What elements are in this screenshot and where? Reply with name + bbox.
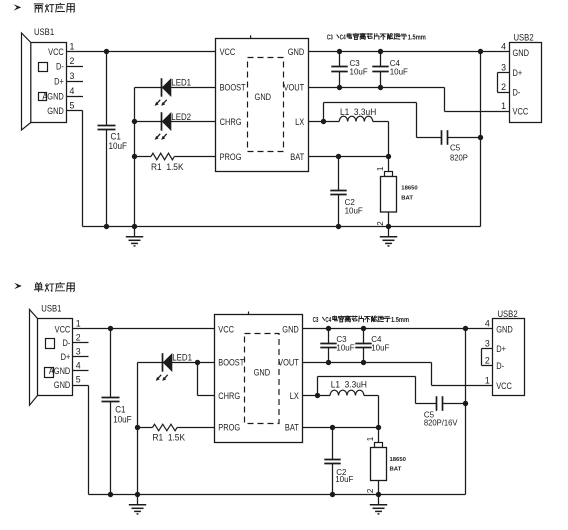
junction rail-ground (bottom) [135,492,140,497]
svg-text:18650: 18650 [401,186,418,192]
label 18650 BAT (bottom) [390,457,407,472]
svg-text:VCC: VCC [513,106,529,117]
wire ground rail (top) [83,226,481,228]
wire BAT row (bottom) [303,427,379,429]
USB2 D+/D- short (bottom) [482,349,493,366]
junction C5-return (top) [478,135,483,140]
svg-text:GND: GND [254,367,271,378]
wire USB1 GND pin5 down (bottom) [73,386,89,495]
svg-text:C3: C3 [313,316,319,324]
wire LX to C5 (bottom) [318,377,416,404]
svg-text:CHRG: CHRG [220,116,242,127]
svg-text:USB1: USB1 [41,303,61,314]
svg-text:3: 3 [70,71,75,81]
ground symbol left (top) [126,227,143,246]
svg-text:BAT: BAT [285,422,299,433]
wire PROG row (top) [135,156,216,158]
svg-text:C3: C3 [327,34,333,42]
op-amp U1 charger IC (bottom) [215,312,303,443]
ground symbol battery (top) [380,227,397,246]
USB connector USB2 (bottom) [493,308,525,395]
label C2 10uF (bottom) [335,467,353,484]
svg-text:USB2: USB2 [498,308,518,319]
svg-text:18650: 18650 [390,457,407,463]
ground symbol left (bottom) [129,495,146,514]
inductor L1 (bottom) [330,390,364,395]
wire BOOST row (bottom) [138,362,215,364]
svg-text:1: 1 [376,166,385,171]
op-amp U1 charger IC (top) [216,35,309,171]
svg-text:D+: D+ [496,343,506,354]
junction VOUT-C4 (bottom) [361,360,366,365]
svg-text:D-: D- [62,337,70,348]
junction rail-R1 (top) [132,154,137,159]
wire LX to C5 (top) [324,103,417,138]
wire USB1 GND pin5 down (top) [67,111,83,227]
svg-text:2: 2 [376,221,385,226]
wire VOUT to USB2 VCC (bottom) [303,363,493,386]
wire LX row (bottom) [303,395,331,397]
svg-text:10uF: 10uF [390,66,408,76]
USB1 pin numbers 1-5 (bottom) [76,319,81,385]
junction C1 top (top) [104,49,109,54]
wire USB1 VCC to U1 VCC (top) [67,51,216,53]
svg-text:D+: D+ [61,351,71,362]
capacitor C3 (top) [331,52,347,88]
junction BAT-C2 (top) [336,154,341,159]
heading text 单灯应用 [34,282,74,291]
svg-text:1.5mm: 1.5mm [391,316,409,324]
wire GND net U1 to USB2 (bottom) [303,328,493,330]
capacitor C1 (bottom) [102,329,120,495]
note C3 C4 placement (top) [327,33,426,42]
junction GND-return (bottom) [463,326,468,331]
svg-text:VCC: VCC [55,324,71,335]
svg-text:3: 3 [501,63,506,73]
wire BOOST to CHRG jumper (bottom) [198,363,215,396]
USB2 D+/D- short (top) [498,73,510,93]
LED LED2 (top) [155,112,171,140]
capacitor C5 (top) [417,130,481,145]
junction LED1-CHRG (bottom) [195,360,200,365]
label C1 10uF (bottom) [113,404,131,425]
svg-text:VOUT: VOUT [278,357,299,368]
capacitor C4 (top) [372,52,388,88]
capacitor C2 (bottom) [324,428,340,495]
svg-text:C4: C4 [340,34,346,42]
wire CHRG row (top) [135,121,216,123]
USB2 pin numbers (top) [501,42,506,112]
U1 internal GND pad (bottom) [245,334,280,424]
svg-text:VCC: VCC [496,380,512,391]
ground symbol battery (bottom) [370,495,387,514]
svg-text:2: 2 [70,56,75,66]
label C5 820P/16V (bottom) [424,409,458,427]
svg-text:4: 4 [501,42,506,52]
wire L1 to BAT node (bottom) [364,396,379,428]
svg-text:2: 2 [485,356,490,366]
svg-text:10uF: 10uF [371,342,389,352]
junction BAT-C2 (bottom) [330,425,335,430]
svg-text:BAT: BAT [390,466,402,472]
wire BAT row (top) [309,156,389,158]
svg-text:820P/16V: 820P/16V [424,418,458,428]
svg-text:2: 2 [501,82,506,92]
battery BAT 18650 (top) [381,157,397,227]
svg-text:LED1: LED1 [171,77,191,88]
svg-text:C1: C1 [115,404,126,414]
USB connector USB1 (top) [22,26,67,130]
capacitor C4 (bottom) [355,329,371,363]
junction rail-battery (bottom) [376,492,381,497]
svg-text:C5: C5 [450,142,461,152]
svg-text:BAT: BAT [290,151,304,162]
junction LX branch (top) [321,119,326,124]
wire LED anode rail (top) [134,88,136,227]
USB connector USB1 (bottom) [30,303,73,405]
capacitor C5 (bottom) [416,396,466,411]
wire BOOST row (top) [135,87,216,89]
svg-text:5: 5 [76,375,81,385]
svg-text:D-: D- [496,360,504,371]
LED LED1 (top) [155,78,171,106]
junction rail-R1 (bottom) [135,425,140,430]
junction GND-C4 (top) [378,49,383,54]
svg-text:10uF: 10uF [350,66,368,76]
svg-text:PROG: PROG [218,422,240,433]
wire PROG row (bottom) [138,427,215,429]
svg-text:VCC: VCC [218,324,234,335]
U1 internal GND pad (top) [248,58,284,152]
heading bullet (bottom) [14,283,22,289]
svg-text:GND: GND [513,47,530,58]
label C4 10uF (top) [390,57,408,76]
USB connector USB2 (top) [510,32,542,123]
capacitor C1 (top) [98,52,116,227]
junction GND-return (top) [478,49,483,54]
svg-text:GND: GND [255,91,272,102]
svg-text:10uF: 10uF [345,205,363,215]
battery BAT 18650 (bottom) [371,428,387,495]
label C5 820P (top) [450,142,468,162]
label 18650 BAT (top) [401,186,418,202]
note C3 C4 placement (bottom) [313,316,410,325]
junction VOUT-C3 (top) [337,85,342,90]
svg-text:USB1: USB1 [34,26,54,37]
svg-text:VCC: VCC [48,46,64,57]
svg-text:D-: D- [513,87,521,98]
heading text 两灯应用 [34,3,74,12]
svg-text:GND: GND [288,46,305,57]
wire VOUT to USB2 VCC (top) [309,88,510,112]
junction rail-C1 (bottom) [108,492,113,497]
svg-text:D+: D+ [54,76,64,87]
wire GND return right (bottom) [465,329,467,495]
svg-text:4: 4 [76,361,81,371]
svg-text:L1 3.3uH: L1 3.3uH [340,107,376,117]
svg-text:GND: GND [496,324,513,335]
svg-text:1: 1 [485,375,490,385]
svg-text:BAT: BAT [401,195,413,201]
junction rail-C1 (top) [104,224,109,229]
junction BAT-battery (bottom) [376,425,381,430]
svg-text:2: 2 [366,488,375,493]
svg-text:D+: D+ [513,67,523,78]
svg-text:3: 3 [76,347,81,357]
svg-text:4: 4 [70,86,75,96]
USB1 pin numbers 1-5 (top) [70,42,75,111]
svg-text:GND: GND [282,324,299,335]
capacitor C2 (top) [330,157,346,227]
svg-text:1: 1 [70,42,75,52]
junction C1 top (bottom) [108,326,113,331]
junction rail-ground (top) [132,224,137,229]
svg-text:2: 2 [76,333,81,343]
LED LED1 (bottom) [156,353,172,381]
junction rail-C2 (top) [336,224,341,229]
svg-text:GND: GND [47,105,64,116]
capacitor C3 (bottom) [320,329,336,363]
svg-text:10uF: 10uF [113,414,131,424]
svg-text:1: 1 [76,319,81,329]
svg-text:LED1: LED1 [172,352,192,363]
svg-text:3: 3 [485,339,490,349]
svg-text:10uF: 10uF [335,474,353,484]
junction GND-C3 (bottom) [326,326,331,331]
svg-text:PROG: PROG [220,151,242,162]
USB1 pin stubs 2-4 (bottom) [73,343,89,371]
svg-text:L1 3.3uH: L1 3.3uH [331,379,367,389]
svg-text:VCC: VCC [220,46,236,57]
svg-text:VOUT: VOUT [284,82,305,93]
label C1 10uF (top) [109,131,127,151]
svg-text:GND: GND [54,379,71,390]
svg-text:R1 1.5K: R1 1.5K [151,162,184,172]
svg-text:BOOST: BOOST [218,357,244,368]
svg-text:BOOST: BOOST [220,82,246,93]
svg-text:1: 1 [366,436,375,441]
label C2 10uF (top) [345,196,363,215]
svg-text:CHRG: CHRG [218,390,240,401]
svg-text:5: 5 [70,101,75,111]
wire LED anode rail (bottom) [137,363,139,495]
svg-text:1: 1 [501,101,506,111]
junction C5-return (bottom) [463,401,468,406]
junction rail-LED2 (top) [132,119,137,124]
svg-text:USB2: USB2 [514,32,534,43]
wire L1 to BAT node (top) [373,122,389,157]
junction LX branch (bottom) [315,393,320,398]
svg-text:C4: C4 [325,316,331,324]
junction rail-battery (top) [386,224,391,229]
heading bullet (top) [14,4,22,10]
junction GND-C4 (bottom) [361,326,366,331]
svg-text:10uF: 10uF [109,140,127,150]
svg-text:10uF: 10uF [336,342,354,352]
svg-text:LX: LX [290,390,299,401]
svg-text:820P: 820P [450,153,468,163]
svg-text:4: 4 [485,319,490,329]
junction BAT-battery (top) [386,154,391,159]
junction rail-C2 (bottom) [330,492,335,497]
wire GND net U1 to USB2 (top) [309,51,510,53]
resistor R1 (bottom) [153,424,178,431]
USB1 pin stubs 2-4 (top) [67,67,84,97]
svg-text:1.5mm: 1.5mm [408,34,426,42]
wire USB1 VCC to U1 VCC (bottom) [73,328,215,330]
wire ground rail (bottom) [89,494,466,496]
junction GND-C3 (top) [337,49,342,54]
label C4 10uF (bottom) [371,334,389,353]
svg-text:LED2: LED2 [171,112,191,123]
inductor L1 (top) [339,116,372,121]
svg-text:LX: LX [295,116,304,127]
wire GND return right (top) [480,52,482,227]
wire LX row (top) [309,121,340,123]
svg-text:D-: D- [56,61,64,72]
label C3 10uF (bottom) [336,334,354,353]
junction VOUT-C4 (top) [378,85,383,90]
junction VOUT-C3 (bottom) [326,360,331,365]
resistor R1 (top) [151,153,174,160]
svg-text:R1 1.5K: R1 1.5K [153,432,186,442]
USB2 pin numbers (bottom) [485,319,490,386]
label C3 10uF (top) [350,57,368,76]
